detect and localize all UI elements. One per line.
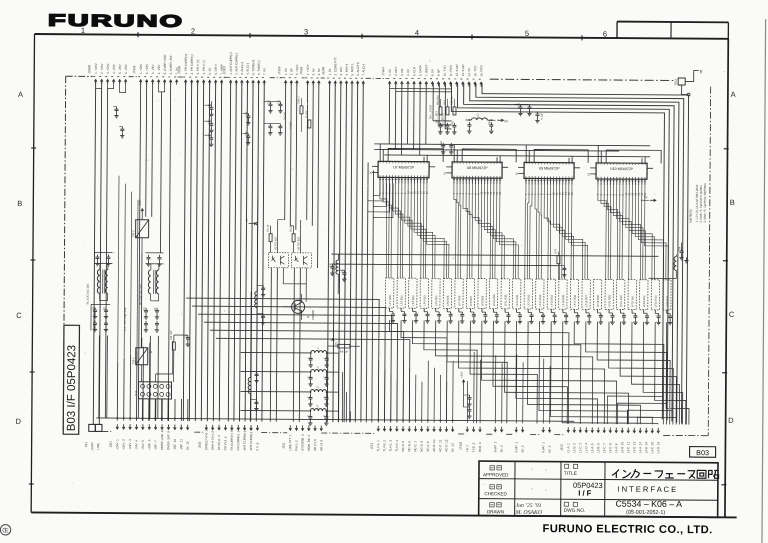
inductor L6 with caps (254, 162, 266, 342)
IC U9 M54972P (515, 157, 580, 195)
wire bundle top-left of J7604 going right (390, 88, 452, 91)
svg-text:LF3 R22: LF3 R22 (412, 295, 415, 306)
svg-text:6. CURR -26F: 6. CURR -26F (169, 55, 173, 74)
svg-text:C: C (16, 311, 22, 320)
svg-text:4. ALC(-): 4. ALC(-) (246, 63, 250, 75)
svg-text:PA VC-D .3: PA VC-D .3 (217, 435, 221, 450)
svg-text:L11: L11 (476, 113, 479, 118)
svg-text:C63: C63 (440, 141, 443, 146)
svg-text:C1 ~ C6 1.5µ/ 50V: C1 ~ C6 1.5µ/ 50V (123, 307, 127, 330)
svg-text:L4-A .13: L4-A .13 (638, 442, 642, 454)
svg-text:C: C (729, 310, 735, 319)
svg-text:4. NH(+): 4. NH(+) (345, 64, 349, 75)
connector (bottom) (514, 427, 525, 453)
svg-text:LINE PTT .1: LINE PTT .1 (288, 434, 292, 451)
svg-text:5. CLK: 5. CLK (412, 67, 416, 76)
svg-text:OVER -26F .9: OVER -26F .9 (166, 431, 170, 450)
connector J7604 (top) (381, 64, 483, 87)
svg-text:LF22 R41: LF22 R41 (631, 295, 634, 307)
diode CR1-1 cluster (297, 96, 311, 132)
svg-text:C5: C5 (154, 307, 157, 311)
svg-text:L2-C .7: L2-C .7 (602, 443, 606, 453)
svg-text:-24V .4: -24V .4 (134, 440, 138, 450)
svg-text:4. -24V: 4. -24V (112, 64, 116, 74)
svg-text:AC-A .9: AC-A .9 (426, 441, 430, 452)
connector J502 (bottom) (198, 425, 260, 451)
wire stair bundle filter cells to J513 (389, 320, 659, 424)
svg-text:LF15 R34: LF15 R34 (551, 294, 554, 306)
svg-text:2SD880: 2SD880 (311, 309, 315, 320)
svg-text:CB 2: CB 2 (131, 230, 135, 237)
transistor Q1 2SD880 (283, 294, 315, 320)
connector J7605 (top) (132, 54, 179, 84)
relay RY1 contact block (134, 341, 173, 421)
connector J7608 (top) (177, 54, 224, 85)
svg-text:LF25 R44: LF25 R44 (666, 295, 669, 307)
svg-text:C: C (307, 396, 310, 398)
svg-text:-26F .11: -26F .11 (179, 439, 183, 450)
svg-text:APPROVED: APPROVED (483, 472, 509, 477)
svg-text:LF17 R36: LF17 R36 (574, 294, 577, 306)
svg-text:LOAD: LOAD (90, 443, 94, 451)
svg-text:1. PR CURR(+): 1. PR CURR(+) (184, 54, 188, 75)
svg-text:B03 I/F 05P0423: B03 I/F 05P0423 (66, 345, 79, 431)
svg-text:SHH·K V(+) .2: SHH·K V(+) .2 (211, 431, 215, 451)
wires J506B down to TB1 (93, 81, 125, 425)
B03 reference box (690, 447, 716, 458)
wire risers small bottom groups (467, 352, 550, 424)
svg-text:·: · (531, 486, 533, 492)
svg-text:-24V .5: -24V .5 (141, 440, 145, 450)
pi filter L1 (241, 346, 339, 367)
svg-text:LF21 R40: LF21 R40 (620, 295, 623, 307)
svg-text:A: A (18, 90, 23, 99)
svg-text:ST/TERM .3: ST/TERM .3 (301, 434, 305, 451)
svg-text:SHIELD V(+) .1: SHIELD V(+) .1 (204, 429, 208, 450)
svg-text:+26V: +26V (461, 371, 464, 378)
svg-text:LF16 R35: LF16 R35 (562, 294, 565, 306)
svg-text:3. Mark *2. 1µH/¼W 100P/50V: 3. Mark *2. 1µH/¼W 100P/50V (703, 183, 707, 223)
small stair under U7 left (368, 183, 393, 217)
connector J2308 (top) (321, 57, 365, 86)
svg-text:C: C (323, 396, 326, 398)
svg-text:C: C (324, 357, 327, 359)
svg-text:RL1 DC-DC-106: RL1 DC-DC-106 (86, 283, 90, 304)
svg-text:L4-C .15: L4-C .15 (650, 441, 654, 453)
ammeter shunt resistor R9 (328, 337, 360, 354)
choke L14 C84 right side (648, 242, 688, 278)
wire risers J512 pins (378, 360, 453, 423)
svg-text:C15: C15 (245, 111, 248, 116)
svg-text:LF1 R20: LF1 R20 (389, 295, 392, 306)
svg-text:TB12: TB12 (674, 78, 678, 85)
svg-text:U2 PC-817: U2 PC-817 (296, 236, 300, 250)
inspection stamp (circled mark) bottom-left (0, 525, 10, 535)
title block table (479, 461, 719, 517)
wire bundle J2308 straight down (327, 83, 363, 423)
svg-text:(05-001-2052-1): (05-001-2052-1) (626, 510, 665, 516)
wires RL/CB area down to J501 (99, 252, 170, 418)
resistor/cap stack near J7604 (436, 94, 457, 154)
svg-text:4×7µF: 4×7µF (289, 122, 292, 130)
svg-text:5.6K² .1: 5.6K² .1 (493, 441, 497, 452)
column zone numbers 1-6 (81, 26, 607, 41)
resistor R70 right mid (554, 248, 566, 279)
svg-text:1. 0V: 1. 0V (284, 68, 288, 75)
PCB outline phantom line (05P0423 board boundary) (63, 76, 710, 435)
svg-text:2. 0V: 2. 0V (311, 68, 315, 75)
svg-text:RXD .3: RXD .3 (478, 442, 482, 452)
connector J7302 (bottom) (459, 426, 483, 452)
svg-text:LF23 R42: LF23 R42 (643, 295, 646, 307)
IC U10 M54972P (587, 158, 653, 196)
svg-text:AB (-) .6: AB (-) .6 (319, 439, 323, 451)
svg-text:TXD .2: TXD .2 (472, 442, 476, 452)
svg-text:J502: J502 (198, 441, 202, 448)
svg-text:M. OSAKO: M. OSAKO (515, 510, 543, 516)
pi filter outputs down (338, 353, 350, 422)
svg-text:A: A (731, 90, 736, 99)
svg-text:L12: L12 (517, 102, 520, 107)
svg-text:OVER +26F .8: OVER +26F .8 (160, 430, 164, 450)
svg-text:C62: C62 (451, 121, 454, 126)
wires optos down to J511 (270, 268, 306, 422)
IC U8 M54972P (443, 157, 508, 195)
svg-text:J2303: J2303 (222, 66, 226, 75)
svg-text:3. ALC(+): 3. ALC(+) (240, 62, 244, 75)
transformer RL2 (138, 253, 163, 333)
wire bundle mid-left stairs to J512 (185, 298, 410, 423)
5V arrow near U10 (641, 195, 656, 201)
svg-text:L1-B .2: L1-B .2 (572, 443, 576, 453)
svg-text:C2: C2 (103, 307, 106, 311)
svg-text:CB-1: CB-1 (131, 357, 135, 364)
wire stair J501 risers (117, 176, 189, 421)
svg-text:TLY-A .1: TLY-A .1 (376, 440, 380, 452)
svg-text:0V .2: 0V .2 (548, 445, 552, 452)
svg-text:LF24 R43: LF24 R43 (655, 295, 658, 307)
svg-text:LF9 R28: LF9 R28 (481, 295, 484, 306)
svg-text:+24V .2: +24V .2 (122, 439, 126, 450)
svg-text:12. 5.6K²: 12. 5.6K² (455, 64, 459, 76)
svg-text:J7605: J7605 (132, 65, 136, 74)
svg-text:4: 4 (415, 28, 419, 37)
svg-text:2. ANT CURR(-): 2. ANT CURR(-) (234, 53, 238, 75)
svg-text:CR1-1: CR1-1 (298, 96, 301, 104)
svg-text:TB1: TB1 (84, 442, 88, 448)
svg-text:+B .1: +B .1 (465, 445, 469, 452)
svg-text:0V .2: 0V .2 (500, 445, 504, 452)
svg-text:1. +24V: 1. +24V (139, 64, 143, 74)
svg-text:C: C (323, 415, 326, 417)
svg-text:C: C (308, 357, 311, 359)
svg-text:AB (+) .5: AB (+) .5 (313, 439, 317, 451)
svg-text:4×7µF: 4×7µF (283, 112, 286, 120)
svg-text:CR: CR (329, 263, 332, 267)
svg-text:B: B (730, 198, 735, 207)
svg-text:C22: C22 (277, 99, 280, 104)
svg-text:6. DR V: 6. DR V (214, 64, 218, 75)
svg-text:L1-D .4: L1-D .4 (584, 443, 588, 453)
svg-text:8. 0V: 8. 0V (431, 69, 435, 76)
svg-text:C1: C1 (92, 307, 95, 311)
svg-text:C21: C21 (267, 99, 270, 104)
svg-text:L14: L14 (672, 264, 675, 269)
capacitor cluster +26V mid stair (460, 371, 472, 418)
svg-text:J501: J501 (109, 441, 113, 448)
svg-text:L4: L4 (315, 405, 319, 409)
svg-text:C5534 – K06 – A: C5534 – K06 – A (615, 499, 682, 509)
svg-text:·: · (545, 468, 547, 474)
svg-text:14. 0V: 14. 0V (467, 68, 471, 77)
svg-text:4. PR V (-): 4. PR V (-) (202, 60, 206, 74)
svg-text:2. +24V: 2. +24V (145, 64, 149, 74)
svg-text:11. RXD: 11. RXD (449, 64, 453, 76)
svg-text:3. PR V (+): 3. PR V (+) (196, 60, 200, 75)
svg-text:CA: CA (341, 269, 344, 273)
svg-text:5. 0V: 5. 0V (208, 68, 212, 75)
capacitor cluster C11-C14 (204, 101, 214, 146)
svg-text:5.6K² .1: 5.6K² .1 (541, 442, 545, 453)
svg-text:2: 2 (191, 27, 195, 36)
svg-text:LF8 R27: LF8 R27 (470, 295, 473, 306)
svg-text:J7608: J7608 (177, 65, 181, 74)
svg-text:L3-B .10: L3-B .10 (620, 441, 624, 453)
svg-text:LF13 R32: LF13 R32 (528, 294, 531, 306)
svg-text:1. ANT CURR(+): 1. ANT CURR(+) (229, 52, 233, 74)
svg-text:4. -26V: 4. -26V (157, 65, 161, 75)
opto-coupler U2 PC-817 (291, 236, 311, 268)
pi filter L3 (240, 385, 338, 406)
svg-text:L3: L3 (316, 386, 320, 390)
svg-text:J7606: J7606 (299, 66, 303, 75)
svg-text:DRAWN: DRAWN (487, 509, 504, 514)
svg-text:J511: J511 (282, 442, 286, 449)
svg-text:U1 PC-817: U1 PC-817 (273, 236, 277, 250)
svg-text:L2-D .8: L2-D .8 (608, 443, 612, 453)
svg-text:L1-A .1: L1-A .1 (566, 443, 570, 453)
svg-text:PR VI-2 .4: PR VI-2 .4 (223, 436, 227, 450)
svg-text:1. +1EV: 1. +1EV (306, 65, 310, 76)
svg-text:J7302: J7302 (459, 441, 463, 450)
svg-text:C16: C16 (245, 131, 248, 136)
svg-text:5: 5 (525, 29, 529, 38)
capacitors on +24V rails (113, 107, 124, 138)
svg-text:0V .2: 0V .2 (521, 445, 525, 452)
svg-text:LF11 R30: LF11 R30 (504, 294, 507, 306)
svg-text:1. 0V: 1. 0V (388, 69, 392, 76)
svg-text:0V .13: 0V .13 (451, 443, 455, 452)
wires J7605 down (139, 81, 170, 253)
svg-text:E7: E7 (246, 218, 249, 222)
svg-text:D: D (16, 417, 22, 426)
connector J513 (bottom) (560, 427, 661, 453)
svg-text:5V: 5V (644, 195, 648, 199)
bus wiring above ICs (374, 83, 662, 164)
svg-text:0V: 0V (335, 342, 338, 345)
svg-text:C12: C12 (208, 119, 211, 124)
wire bundle J7604 right pins to right-side vertical runs (449, 83, 688, 424)
row zone letters A-D right (29, 85, 737, 489)
feed-through filter cell band LF1-LF25 (385, 278, 672, 325)
svg-text:D: D (728, 416, 734, 425)
svg-text:ANT CURR(-) .8: ANT CURR(-) .8 (249, 428, 253, 450)
svg-text:L3-D .12: L3-D .12 (632, 441, 636, 453)
svg-text:TLY-C .3: TLY-C .3 (389, 440, 393, 452)
svg-text:AC-D .12: AC-D .12 (444, 439, 448, 452)
svg-text:6: 6 (603, 29, 607, 38)
long horizontals mid page (96, 252, 658, 422)
svg-text:ANT CURR(+) .7: ANT CURR(+) .7 (243, 428, 247, 451)
svg-text:C: C (307, 376, 310, 378)
svg-text:LF2 R21: LF2 R21 (401, 295, 404, 306)
svg-text:B: B (17, 199, 22, 208)
svg-text:L4-D .16: L4-D .16 (656, 442, 660, 454)
wires J7306/J7606 to optos (277, 82, 318, 268)
svg-text:U8 M54972P: U8 M54972P (467, 166, 489, 170)
svg-text:L3-C .11: L3-C .11 (626, 442, 630, 454)
svg-text:Q1: Q1 (306, 314, 310, 318)
svg-text:5.6K² .1: 5.6K² .1 (514, 442, 518, 453)
svg-text:L3: L3 (334, 267, 337, 271)
svg-text:LF14 R33: LF14 R33 (539, 294, 542, 306)
inductor L5 with caps (248, 291, 260, 421)
svg-text:3: 3 (304, 27, 308, 36)
svg-text:LF10 R29: LF10 R29 (493, 294, 496, 306)
svg-text:9. NF: 9. NF (437, 69, 441, 77)
circuit breaker CB1 1A (131, 338, 152, 382)
svg-text:6. ALC(H): 6. ALC(H) (356, 62, 360, 75)
resistors above optos (266, 220, 300, 253)
scan page right edge (762, 19, 766, 543)
svg-text:NA__STAR: NA__STAR (429, 105, 432, 119)
svg-text:3. +24V: 3. +24V (106, 63, 110, 73)
svg-text:C8: C8 (185, 334, 188, 338)
svg-text:E: E (700, 69, 703, 74)
svg-text:R1 1k: R1 1k (267, 224, 270, 231)
svg-text:0V .12: 0V .12 (186, 441, 190, 450)
svg-text:I / F: I / F (578, 489, 592, 498)
svg-text:U9 M54972P: U9 M54972P (539, 167, 561, 171)
NOTE text block (689, 183, 707, 223)
svg-text:L3-A .9: L3-A .9 (614, 443, 618, 453)
svg-text:22k ½W: 22k ½W (170, 330, 173, 340)
svg-text:C11: C11 (208, 103, 211, 108)
connector (bottom) (541, 427, 552, 453)
svg-text:NC-D .8: NC-D .8 (420, 441, 424, 452)
svg-text:15. TXD: 15. TXD (473, 65, 477, 77)
svg-text:-26F .7: -26F .7 (154, 440, 158, 450)
svg-text:U10 M54972P: U10 M54972P (610, 167, 634, 171)
svg-text:1. 0V: 1. 0V (328, 68, 332, 75)
svg-text:LF7 R26: LF7 R26 (458, 295, 461, 306)
svg-text:L4-B .14: L4-B .14 (644, 442, 648, 454)
IC U7 M54972P (369, 156, 435, 194)
svg-text:PH(-) .2: PH(-) .2 (294, 440, 298, 451)
connector (bottom) (493, 427, 504, 453)
svg-text:C: C (307, 415, 310, 417)
svg-text:LF6 R25: LF6 R25 (447, 295, 450, 306)
row zone letters A-D left (16, 90, 24, 426)
opto-coupler U1 PC-817 (268, 236, 288, 268)
svg-text:MON. BK .4: MON. BK .4 (307, 435, 311, 451)
control lines NA/STAR (429, 83, 451, 129)
pi filter L2 (241, 365, 339, 386)
svg-text:L2-A .5: L2-A .5 (590, 443, 594, 453)
svg-text:PR CURR(-) .6: PR CURR(-) .6 (236, 430, 240, 450)
svg-text:AC-C .11: AC-C .11 (438, 439, 442, 451)
svg-text:TLY-D .4: TLY-D .4 (395, 440, 399, 452)
connector J512 (bottom) (370, 426, 455, 452)
svg-text:TLY-B .2: TLY-B .2 (382, 440, 386, 452)
transformer RL1 (85, 252, 112, 332)
svg-text:PA CURR(+) .5: PA CURR(+) .5 (230, 430, 234, 451)
svg-text:J512: J512 (370, 443, 374, 450)
svg-text:R9 1k²: R9 1k² (340, 350, 348, 354)
svg-text:Jun ’25 ’91: Jun ’25 ’91 (516, 503, 542, 509)
svg-text:1. +24V: 1. +24V (94, 63, 98, 73)
svg-text:C61: C61 (437, 120, 440, 125)
svg-text:J7604: J7604 (381, 67, 385, 76)
svg-text:2. KEY: 2. KEY (394, 67, 398, 76)
svg-text:LINE: LINE (96, 443, 100, 450)
board outline label box B03 I/F 05P0423 (63, 325, 79, 434)
svg-text:6. -26V: 6. -26V (124, 64, 128, 74)
svg-text:L2: L2 (316, 366, 320, 370)
E terminal with x (246, 218, 258, 225)
svg-text:LF5 R24: LF5 R24 (435, 295, 438, 306)
connector J2303 (top) (222, 52, 266, 85)
svg-text:1: 1 (81, 26, 85, 35)
svg-text:6. TUNE(-): 6. TUNE(-) (257, 60, 261, 74)
svg-text:LF18 R37: LF18 R37 (585, 295, 588, 307)
svg-text:R61 91k: R61 91k (437, 94, 440, 104)
svg-text:LF19 R38: LF19 R38 (597, 295, 600, 307)
svg-text:5. TUNE(+): 5. TUNE(+) (251, 60, 255, 75)
svg-text:J513: J513 (560, 444, 564, 451)
svg-text:·: · (545, 488, 547, 494)
connector J7606 (top) (299, 64, 321, 85)
svg-text:+26V: +26V (138, 200, 142, 207)
svg-text:LF12 R31: LF12 R31 (516, 294, 519, 306)
wire pair left of filter band (366, 162, 373, 422)
FURUNO logo (48, 11, 184, 31)
frame top notch box (617, 22, 728, 39)
svg-text:AC-B .10: AC-B .10 (432, 439, 436, 452)
svg-text:J7?4: J7?4 (134, 390, 138, 397)
svg-text:NOTE(S): NOTE(S) (689, 209, 693, 222)
pi filter L4 (240, 404, 338, 425)
svg-text:Œ: Œ (2, 527, 9, 534)
svg-text:FURUNO: FURUNO (48, 11, 184, 31)
wire bundle J7608/J2303 straight down to J502 (183, 82, 264, 422)
svg-text:3. NA: 3. NA (400, 68, 404, 76)
svg-text:3. -24V: 3. -24V (151, 65, 155, 75)
svg-text:·: · (531, 466, 533, 472)
svg-text:R70: R70 (554, 248, 557, 253)
capacitor cluster 4.7uF row (263, 99, 292, 135)
svg-text:L1-C .3: L1-C .3 (578, 443, 582, 453)
svg-text:2. +24V: 2. +24V (100, 63, 104, 73)
svg-text:5. CURR +26F: 5. CURR +26F (163, 54, 167, 74)
svg-text:TITLE: TITLE (564, 471, 577, 477)
svg-text:J506B: J506B (87, 65, 91, 74)
terminal TB12 with E lead (674, 69, 703, 96)
svg-text:NC-B .6: NC-B .6 (407, 441, 411, 452)
svg-text:6. DATA: 6. DATA (418, 65, 422, 76)
scan speckle (72, 58, 725, 508)
svg-text:0 V .9: 0 V .9 (255, 442, 259, 450)
